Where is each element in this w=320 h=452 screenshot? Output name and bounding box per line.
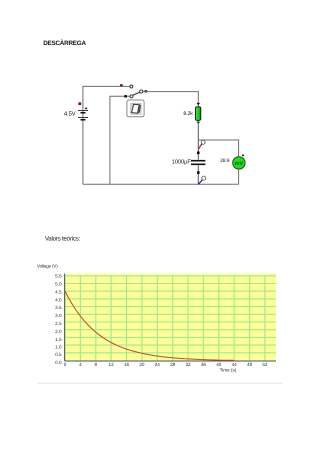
svg-text:28: 28	[170, 362, 176, 367]
resistor R1 8.2k	[183, 107, 200, 121]
chart gridlines	[65, 276, 276, 361]
svg-text:Valors teòrics:: Valors teòrics:	[45, 236, 81, 243]
wire to voltmeter top	[198, 140, 238, 156]
svg-text:20: 20	[139, 362, 145, 367]
node marker red top	[120, 84, 123, 86]
svg-text:4.0: 4.0	[55, 297, 62, 302]
svg-text:24: 24	[155, 362, 161, 367]
chart axes	[65, 274, 276, 362]
discharge curve	[65, 291, 234, 360]
junction below capacitor	[197, 171, 200, 174]
wire switch pole to resistor	[143, 92, 198, 107]
svg-text:DESCÀRREGA: DESCÀRREGA	[43, 39, 86, 47]
junction on discharge wire	[124, 95, 127, 97]
y axis tick labels	[55, 274, 62, 365]
switch S1 SPDT	[130, 85, 143, 98]
wire battery bottom	[82, 121, 84, 185]
node marker red battery	[78, 102, 81, 105]
voltmeter M1	[220, 157, 245, 169]
svg-text:4.5: 4.5	[55, 289, 62, 294]
svg-text:8: 8	[95, 362, 98, 367]
svg-text:4.5V: 4.5V	[64, 111, 76, 118]
current arrow below resistor	[197, 122, 201, 124]
svg-text:36: 36	[201, 362, 207, 367]
wire voltmeter bottom	[238, 169, 240, 184]
wire discharge branch left	[110, 96, 130, 184]
svg-text:48: 48	[247, 362, 253, 367]
voltmeter terminal dot	[242, 154, 244, 156]
wire battery top to switch	[83, 86, 130, 121]
faint separator line	[37, 382, 283, 384]
rocker switch picture	[127, 100, 144, 117]
svg-text:0.0: 0.0	[55, 360, 62, 365]
svg-text:Voltage (V): Voltage (V)	[37, 264, 58, 269]
chart plot background	[65, 274, 276, 361]
svg-text:0.5: 0.5	[55, 352, 62, 357]
probe red	[198, 140, 205, 149]
svg-text:8.2k: 8.2k	[183, 111, 193, 117]
svg-text:12: 12	[109, 362, 115, 367]
wire capacitor to bottom rail	[197, 165, 199, 184]
svg-text:32: 32	[185, 362, 191, 367]
svg-text:3.0: 3.0	[55, 313, 62, 318]
svg-text:Time (s): Time (s)	[220, 367, 237, 372]
capacitor C1 1000uF	[172, 158, 206, 165]
svg-text:3.5: 3.5	[55, 305, 62, 310]
svg-text:1.5: 1.5	[55, 337, 62, 342]
svg-text:52: 52	[262, 362, 268, 367]
probe blue	[198, 176, 206, 184]
svg-text:2.5: 2.5	[55, 321, 62, 326]
svg-text:1000µF: 1000µF	[172, 158, 192, 165]
wire bottom rail	[83, 183, 239, 185]
svg-text:5.5: 5.5	[55, 274, 62, 279]
svg-text:4: 4	[79, 362, 82, 367]
current arrow above resistor	[197, 103, 201, 105]
switch pole junction	[145, 90, 148, 92]
wire resistor to capacitor	[197, 120, 199, 159]
junction above capacitor	[197, 152, 200, 155]
svg-text:0: 0	[64, 362, 67, 367]
battery B1 4.5V	[64, 107, 88, 120]
svg-text:2.0: 2.0	[55, 329, 62, 334]
svg-text:mV: mV	[235, 161, 244, 167]
svg-text:1.0: 1.0	[55, 345, 62, 350]
svg-text:28.9: 28.9	[220, 158, 229, 164]
x axis tick labels	[64, 362, 268, 367]
svg-text:5.0: 5.0	[55, 282, 62, 287]
svg-text:16: 16	[124, 362, 130, 367]
